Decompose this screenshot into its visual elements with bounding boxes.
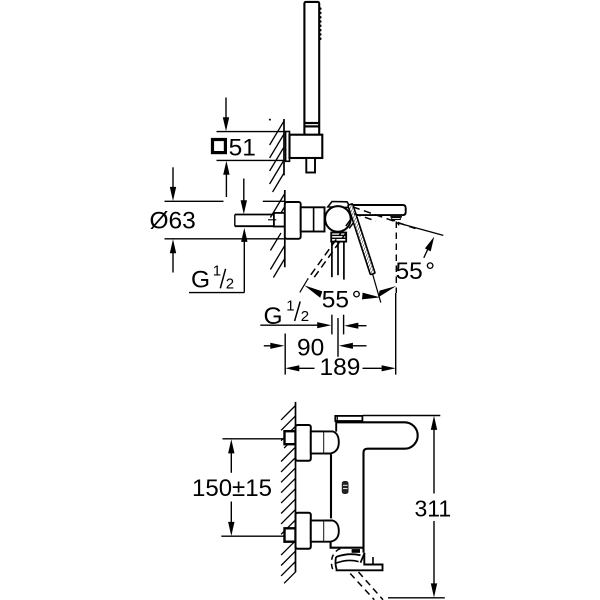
mixer body tube	[301, 207, 325, 231]
handle band	[304, 122, 319, 124]
lever handle (top, side)	[335, 416, 362, 421]
lever base wedge	[328, 202, 351, 208]
holder body	[290, 135, 323, 158]
wall face line (bottom drawing)	[295, 402, 297, 572]
lever handle (hatched bar)	[348, 204, 375, 275]
supply pipe through wall	[235, 214, 285, 216]
dimension G1/2 (upper): leader underline	[189, 292, 244, 294]
dimension 150+-15: line and arrows	[230, 452, 232, 473]
svg-text:311: 311	[415, 495, 452, 521]
bottom connection dome nut	[324, 521, 339, 542]
svg-text:150±15: 150±15	[192, 475, 272, 502]
angle 55 (middle): left arrow	[304, 285, 322, 297]
supply tails	[331, 242, 333, 278]
dimension square-51: lower arrow	[225, 174, 227, 197]
aerator at spout end	[390, 215, 402, 218]
top connection dome nut	[324, 431, 339, 453]
svg-text:G: G	[191, 267, 210, 294]
angle 55 (middle): right arrow	[362, 293, 380, 300]
shower handle (vertical stick)	[304, 2, 319, 135]
top escutcheon	[296, 425, 311, 461]
hand shower handle (dashed)	[350, 574, 374, 600]
GROHE logo	[342, 481, 349, 494]
dimension D63: lower arrow	[172, 253, 174, 273]
wall union box	[274, 213, 285, 227]
dashed lever leg extension	[300, 280, 308, 293]
shower holder clip (black)	[352, 549, 360, 553]
union center tick	[268, 219, 276, 221]
top connection cylinder	[311, 431, 324, 453]
dimension 150+-15: extension lines	[223, 438, 294, 440]
spout (horizontal)	[351, 205, 406, 215]
center line of connections	[337, 318, 339, 357]
dimension square-51: square symbol	[213, 140, 226, 153]
cartridge ball	[325, 206, 351, 232]
bottom escutcheon	[296, 513, 311, 549]
svg-text:2: 2	[301, 308, 309, 325]
wall hatch (bottom drawing)	[281, 406, 295, 584]
dimension 311: line and arrows	[431, 416, 437, 430]
svg-text:G: G	[264, 303, 283, 330]
svg-text:1: 1	[286, 298, 294, 315]
tilted spout dashed top edge	[353, 207, 416, 229]
lever rotated position (dashed) line A	[308, 220, 351, 280]
vertical centerline of aerator (dashed)	[395, 222, 397, 294]
svg-text:55°: 55°	[322, 287, 362, 314]
angle 55 (right): upper arrow	[424, 248, 429, 258]
dimension 90: right arrow	[339, 343, 353, 349]
dimension 311: extension lines	[363, 415, 441, 417]
svg-text:1: 1	[213, 262, 221, 279]
dimension square-51: extension lines	[217, 131, 286, 133]
cartridge rings below ball	[331, 233, 346, 242]
dimension D63: extension lines	[165, 200, 224, 202]
dimension 189: line and arrows	[285, 365, 299, 371]
svg-text:Ø63: Ø63	[150, 208, 196, 235]
wall hatch (middle drawing)	[270, 194, 284, 278]
shower holder cup	[336, 554, 361, 557]
bottom supply stub in wall	[285, 528, 296, 541]
top supply stub in wall	[285, 431, 296, 444]
dimension G1/2 (lower): extension lines	[331, 315, 333, 335]
hose connector pin below holder	[306, 158, 315, 173]
wall hatch (top drawing)	[269, 119, 284, 192]
svg-text:55°: 55°	[396, 258, 436, 285]
dimension G1/2 (lower): right arrow	[344, 323, 358, 329]
angle 55 (right): lower arrow	[378, 286, 396, 297]
dimension D63: upper arrow	[172, 167, 174, 188]
shower holder L-bracket	[337, 553, 383, 571]
lever leg extension (solid)	[373, 274, 381, 303]
lever rotated position (dashed) line B	[313, 222, 354, 279]
tilt reference line (solid)	[399, 223, 443, 235]
dimension square-51: upper arrow	[225, 98, 227, 120]
dimension 189: extension lines	[284, 334, 286, 375]
dimension G1/2 (upper): arrows	[243, 179, 245, 202]
bottom connection cylinder	[311, 521, 324, 542]
svg-text:189: 189	[320, 354, 361, 381]
svg-text:51: 51	[229, 134, 256, 161]
holder wall plate	[286, 132, 290, 162]
body and spout outline	[335, 421, 337, 432]
dimension G1/2 (lower): leader with arrow	[260, 324, 318, 326]
svg-text:2: 2	[226, 275, 234, 292]
escutcheon flange	[285, 202, 301, 239]
tilted aerator dashes	[392, 220, 400, 226]
spray nozzle bumps	[319, 7, 322, 40]
wall face line (middle drawing)	[284, 190, 286, 267]
dimension 90: left arrow	[264, 345, 273, 347]
hand shower outline (dashed arc)	[331, 549, 340, 572]
tilted spout dashed bottom edge	[354, 214, 376, 221]
wall face line (top drawing)	[283, 119, 285, 175]
